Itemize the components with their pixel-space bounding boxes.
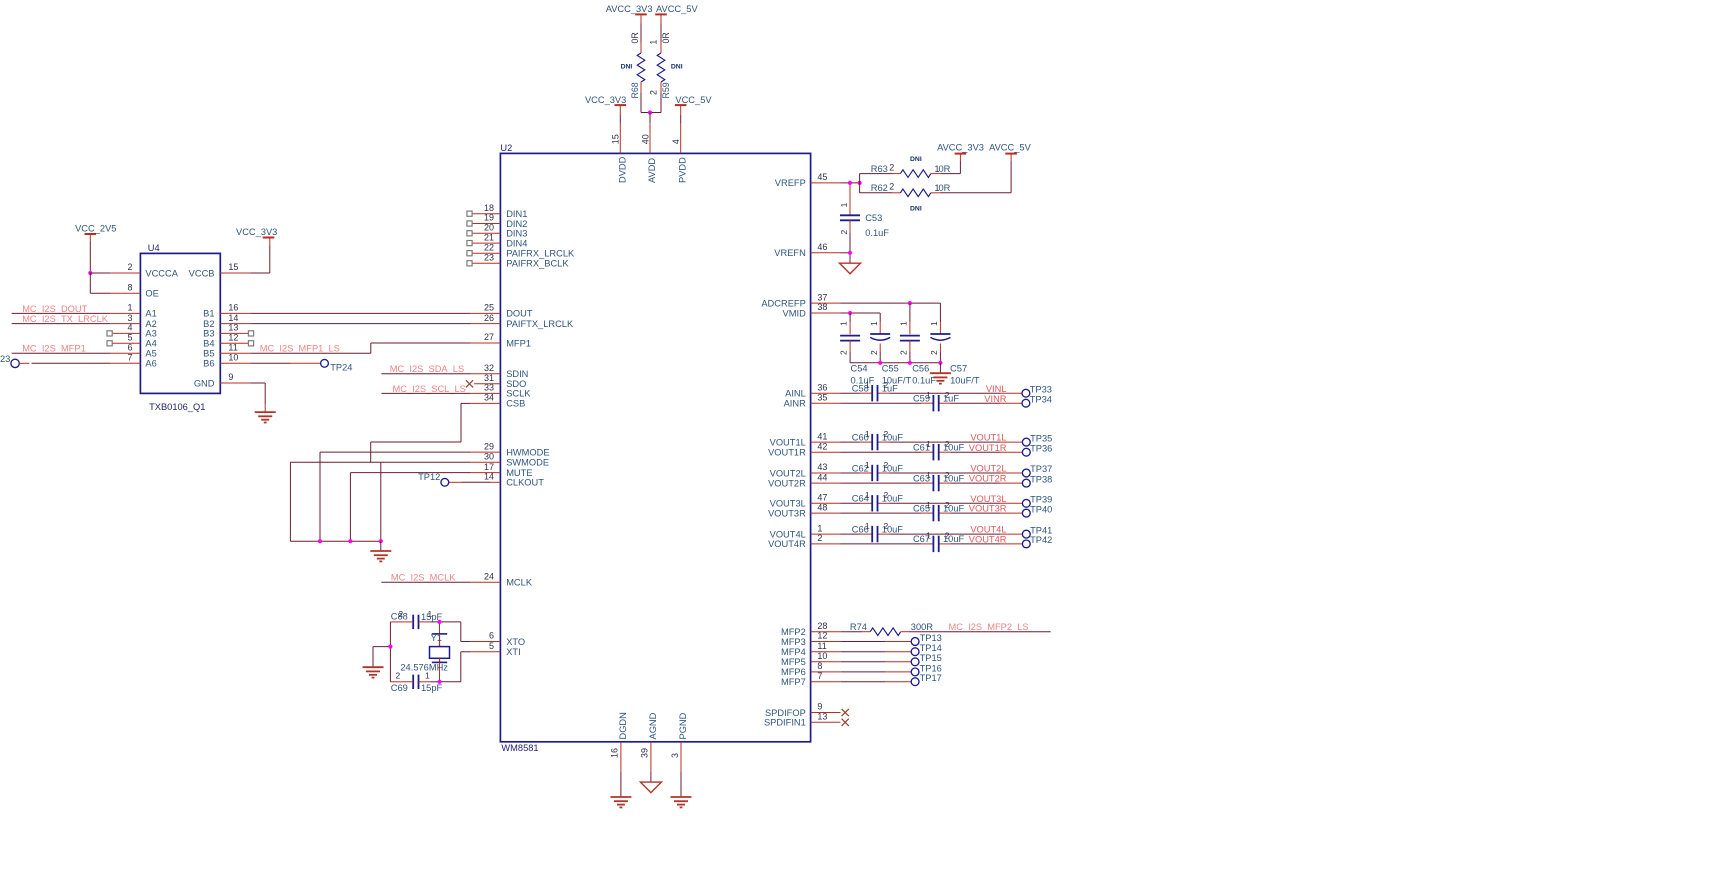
svg-text:PGND: PGND — [678, 712, 688, 739]
svg-text:TP34: TP34 — [1030, 394, 1052, 404]
svg-text:1: 1 — [926, 439, 931, 449]
svg-text:DVDD: DVDD — [617, 156, 627, 183]
svg-text:DNI: DNI — [671, 64, 683, 71]
svg-text:VOUT4R: VOUT4R — [768, 539, 806, 549]
svg-text:10: 10 — [817, 651, 827, 661]
svg-text:C55: C55 — [882, 364, 899, 374]
svg-text:0R: 0R — [661, 32, 671, 43]
svg-text:1: 1 — [899, 321, 909, 326]
svg-text:TP12: TP12 — [418, 472, 440, 482]
svg-text:2: 2 — [899, 350, 909, 355]
svg-text:VOUT3L: VOUT3L — [770, 499, 806, 509]
svg-text:1: 1 — [926, 390, 931, 400]
svg-text:2: 2 — [839, 230, 849, 235]
svg-text:PVDD: PVDD — [678, 157, 688, 183]
svg-text:10: 10 — [228, 353, 238, 363]
svg-text:1: 1 — [865, 429, 870, 439]
svg-text:2: 2 — [929, 350, 939, 355]
svg-text:45: 45 — [817, 172, 827, 182]
svg-text:TP42: TP42 — [1030, 535, 1052, 545]
svg-text:1: 1 — [649, 40, 659, 45]
svg-text:1: 1 — [865, 460, 870, 470]
svg-text:5: 5 — [127, 333, 132, 343]
svg-text:AGND: AGND — [648, 712, 658, 739]
svg-text:C69: C69 — [391, 683, 408, 693]
svg-text:37: 37 — [817, 292, 827, 302]
svg-text:18: 18 — [484, 203, 494, 213]
svg-text:DIN3: DIN3 — [506, 229, 527, 239]
svg-text:15pF: 15pF — [421, 683, 443, 693]
svg-text:C53: C53 — [865, 213, 882, 223]
svg-text:2: 2 — [649, 90, 659, 95]
svg-text:MC_I2S_SCL_LS: MC_I2S_SCL_LS — [393, 384, 466, 394]
svg-text:VOUT4R: VOUT4R — [969, 535, 1007, 545]
svg-text:30: 30 — [484, 451, 494, 461]
svg-text:0.1uF: 0.1uF — [912, 376, 936, 386]
svg-text:C54: C54 — [851, 364, 868, 374]
svg-text:8: 8 — [817, 661, 822, 671]
svg-text:VCC_3V3: VCC_3V3 — [236, 227, 277, 237]
svg-text:9: 9 — [228, 372, 233, 382]
svg-text:2: 2 — [869, 350, 879, 355]
svg-text:SCLK: SCLK — [506, 389, 531, 399]
svg-text:ADCREFP: ADCREFP — [761, 298, 805, 308]
svg-text:DIN1: DIN1 — [506, 209, 527, 219]
svg-text:15: 15 — [611, 134, 621, 144]
svg-text:PAIFTX_LRCLK: PAIFTX_LRCLK — [506, 319, 574, 329]
svg-text:B6: B6 — [203, 359, 214, 369]
svg-text:15: 15 — [228, 262, 238, 272]
svg-text:OE: OE — [145, 289, 158, 299]
svg-text:11: 11 — [817, 641, 826, 651]
svg-text:5: 5 — [489, 641, 494, 651]
svg-text:2: 2 — [884, 490, 889, 500]
svg-text:MCLK: MCLK — [506, 578, 533, 588]
svg-text:TP14: TP14 — [920, 643, 942, 653]
svg-text:TP39: TP39 — [1030, 495, 1052, 505]
svg-text:AINR: AINR — [784, 399, 806, 409]
svg-text:VCC_2V5: VCC_2V5 — [75, 224, 116, 234]
svg-text:VOUT1L: VOUT1L — [770, 437, 806, 447]
svg-text:CLKOUT: CLKOUT — [506, 478, 544, 488]
svg-text:MFP2: MFP2 — [781, 627, 806, 637]
svg-text:1: 1 — [817, 523, 822, 533]
svg-text:AVCC_3V3: AVCC_3V3 — [606, 4, 653, 14]
svg-text:XTI: XTI — [506, 647, 520, 657]
svg-text:B4: B4 — [203, 339, 214, 349]
svg-text:MFP6: MFP6 — [781, 667, 806, 677]
svg-text:2: 2 — [889, 163, 894, 173]
svg-text:VOUT2R: VOUT2R — [969, 474, 1007, 484]
svg-text:MFP3: MFP3 — [781, 637, 806, 647]
svg-text:SDIN: SDIN — [506, 369, 528, 379]
svg-text:A6: A6 — [145, 359, 156, 369]
svg-text:VOUT2L: VOUT2L — [970, 464, 1006, 474]
svg-text:TP24: TP24 — [330, 363, 352, 373]
svg-text:1: 1 — [926, 531, 931, 541]
svg-text:7: 7 — [127, 353, 132, 363]
svg-text:1: 1 — [428, 609, 433, 619]
svg-text:B3: B3 — [203, 329, 214, 339]
svg-text:VOUT1R: VOUT1R — [768, 448, 806, 458]
svg-text:0R: 0R — [939, 164, 951, 174]
svg-text:A2: A2 — [145, 319, 156, 329]
svg-text:U2: U2 — [500, 143, 512, 153]
svg-text:VOUT4L: VOUT4L — [970, 525, 1006, 535]
svg-text:R63: R63 — [871, 164, 888, 174]
svg-text:TP33: TP33 — [1030, 384, 1052, 394]
svg-text:6: 6 — [489, 631, 494, 641]
svg-text:MC_I2S_SDA_LS: MC_I2S_SDA_LS — [390, 364, 464, 374]
svg-text:WM8581: WM8581 — [501, 743, 538, 753]
svg-text:PAIFRX_BCLK: PAIFRX_BCLK — [506, 259, 569, 269]
svg-text:U4: U4 — [148, 243, 160, 253]
svg-text:SPDIFOP: SPDIFOP — [765, 708, 806, 718]
svg-text:1: 1 — [839, 202, 849, 207]
svg-text:VOUT1R: VOUT1R — [969, 443, 1007, 453]
svg-text:VMID: VMID — [783, 308, 807, 318]
svg-text:R59: R59 — [661, 82, 671, 98]
svg-text:MC_I2S_MFP1_LS: MC_I2S_MFP1_LS — [260, 344, 340, 354]
svg-text:2: 2 — [398, 609, 403, 619]
svg-text:B2: B2 — [203, 319, 214, 329]
svg-text:VCCB: VCCB — [189, 268, 215, 278]
svg-text:1: 1 — [929, 321, 939, 326]
svg-text:300R: 300R — [911, 622, 934, 632]
svg-text:DGDN: DGDN — [618, 712, 628, 739]
svg-text:VCCCA: VCCCA — [145, 268, 178, 278]
svg-text:TP13: TP13 — [920, 633, 942, 643]
svg-text:25: 25 — [484, 303, 494, 313]
svg-text:A5: A5 — [145, 349, 156, 359]
svg-text:1: 1 — [127, 303, 132, 313]
svg-text:DNI: DNI — [621, 64, 633, 71]
svg-text:VOUT3L: VOUT3L — [970, 494, 1006, 504]
svg-text:2: 2 — [884, 521, 889, 531]
svg-text:2: 2 — [945, 470, 950, 480]
svg-text:A1: A1 — [145, 309, 156, 319]
svg-text:44: 44 — [817, 472, 827, 482]
svg-text:TP15: TP15 — [920, 653, 942, 663]
svg-text:MC_I2S_TX_LRCLK: MC_I2S_TX_LRCLK — [22, 314, 109, 324]
svg-text:DNI: DNI — [910, 156, 922, 163]
svg-text:29: 29 — [484, 441, 494, 451]
svg-text:46: 46 — [817, 242, 827, 252]
svg-text:C56: C56 — [912, 364, 929, 374]
svg-text:2: 2 — [945, 390, 950, 400]
svg-text:VINR: VINR — [984, 394, 1006, 404]
svg-text:VOUT4L: VOUT4L — [770, 529, 806, 539]
svg-text:SPDIFIN1: SPDIFIN1 — [764, 718, 806, 728]
svg-text:DOUT: DOUT — [506, 309, 533, 319]
svg-text:MC_I2S_MFP1: MC_I2S_MFP1 — [22, 344, 86, 354]
svg-text:1: 1 — [865, 380, 870, 390]
svg-text:17: 17 — [484, 462, 494, 472]
svg-text:2: 2 — [945, 500, 950, 510]
svg-text:VOUT2L: VOUT2L — [770, 468, 806, 478]
svg-text:TP36: TP36 — [1030, 443, 1052, 453]
svg-text:B1: B1 — [203, 309, 214, 319]
svg-text:VINL: VINL — [986, 384, 1007, 394]
svg-text:43: 43 — [817, 462, 827, 472]
svg-text:TP37: TP37 — [1030, 464, 1052, 474]
svg-text:23: 23 — [484, 253, 494, 263]
svg-text:3: 3 — [670, 753, 680, 758]
svg-text:2: 2 — [889, 182, 894, 192]
svg-text:SWMODE: SWMODE — [506, 458, 549, 468]
svg-text:41: 41 — [817, 431, 827, 441]
svg-text:36: 36 — [817, 382, 827, 392]
svg-text:2: 2 — [884, 460, 889, 470]
svg-text:2: 2 — [839, 350, 849, 355]
svg-text:2: 2 — [945, 439, 950, 449]
svg-text:A4: A4 — [145, 339, 156, 349]
svg-text:38: 38 — [817, 302, 827, 312]
svg-text:22: 22 — [484, 242, 494, 252]
svg-text:1: 1 — [865, 521, 870, 531]
svg-text:6: 6 — [127, 343, 132, 353]
svg-text:8: 8 — [127, 283, 132, 293]
svg-text:VOUT3R: VOUT3R — [969, 504, 1007, 514]
svg-text:AINL: AINL — [785, 389, 806, 399]
svg-text:1: 1 — [869, 321, 879, 326]
svg-text:Y1: Y1 — [431, 633, 442, 643]
svg-text:10uF/T: 10uF/T — [950, 376, 980, 386]
svg-text:1: 1 — [425, 670, 430, 680]
svg-text:0R: 0R — [939, 183, 951, 193]
svg-text:0R: 0R — [630, 32, 640, 43]
svg-text:1: 1 — [926, 500, 931, 510]
svg-text:32: 32 — [484, 363, 494, 373]
svg-text:MFP4: MFP4 — [781, 647, 806, 657]
svg-text:MC_I2S_DOUT: MC_I2S_DOUT — [22, 304, 87, 314]
svg-text:PAIFRX_LRCLK: PAIFRX_LRCLK — [506, 249, 575, 259]
svg-text:MFP1: MFP1 — [506, 338, 531, 348]
svg-text:MFP7: MFP7 — [781, 677, 806, 687]
svg-text:VREFP: VREFP — [775, 178, 806, 188]
svg-text:TXB0106_Q1: TXB0106_Q1 — [149, 402, 205, 412]
svg-text:0.1uF: 0.1uF — [865, 228, 889, 238]
svg-text:DNI: DNI — [910, 205, 922, 212]
svg-text:R68: R68 — [630, 82, 640, 98]
svg-text:31: 31 — [484, 373, 494, 383]
svg-text:AVDD: AVDD — [647, 158, 657, 183]
svg-text:VCC_3V3: VCC_3V3 — [585, 95, 626, 105]
svg-text:19: 19 — [484, 213, 494, 223]
svg-text:1: 1 — [926, 470, 931, 480]
svg-text:34: 34 — [484, 393, 494, 403]
svg-text:2: 2 — [127, 262, 132, 272]
svg-text:XTO: XTO — [506, 637, 525, 647]
svg-text:24: 24 — [484, 572, 494, 582]
svg-text:2: 2 — [396, 670, 401, 680]
svg-text:1: 1 — [839, 321, 849, 326]
svg-text:2: 2 — [945, 531, 950, 541]
svg-text:11: 11 — [228, 343, 237, 353]
svg-text:AVCC_5V: AVCC_5V — [656, 4, 698, 14]
svg-text:TP41: TP41 — [1030, 525, 1052, 535]
svg-text:16: 16 — [228, 303, 238, 313]
svg-text:26: 26 — [484, 313, 494, 323]
svg-text:A3: A3 — [145, 329, 156, 339]
svg-text:14: 14 — [228, 313, 238, 323]
svg-text:27: 27 — [484, 332, 494, 342]
svg-text:TP16: TP16 — [920, 663, 942, 673]
svg-text:39: 39 — [640, 748, 650, 758]
svg-text:DIN2: DIN2 — [506, 219, 527, 229]
svg-text:R74: R74 — [850, 622, 867, 632]
svg-text:HWMODE: HWMODE — [506, 447, 549, 457]
svg-text:20: 20 — [484, 223, 494, 233]
svg-text:MUTE: MUTE — [506, 468, 532, 478]
svg-text:R62: R62 — [871, 183, 888, 193]
svg-text:1: 1 — [865, 490, 870, 500]
svg-text:16: 16 — [610, 748, 620, 758]
svg-text:2: 2 — [884, 429, 889, 439]
svg-text:TP23: TP23 — [0, 354, 10, 364]
svg-text:TP35: TP35 — [1030, 433, 1052, 443]
svg-text:C57: C57 — [950, 364, 967, 374]
svg-text:TP17: TP17 — [920, 673, 942, 683]
svg-text:28: 28 — [817, 621, 827, 631]
svg-text:GND: GND — [194, 378, 215, 388]
svg-text:35: 35 — [817, 392, 827, 402]
svg-text:VOUT2R: VOUT2R — [768, 478, 806, 488]
svg-text:MC_I2S_MCLK: MC_I2S_MCLK — [391, 573, 456, 583]
svg-text:12: 12 — [228, 333, 238, 343]
svg-text:47: 47 — [817, 493, 827, 503]
svg-text:AVCC_3V3: AVCC_3V3 — [937, 142, 984, 152]
svg-text:VCC_5V: VCC_5V — [675, 95, 712, 105]
svg-text:TP40: TP40 — [1030, 504, 1052, 514]
svg-text:40: 40 — [640, 134, 650, 144]
svg-text:VREFN: VREFN — [774, 248, 806, 258]
svg-text:AVCC_5V: AVCC_5V — [989, 142, 1031, 152]
svg-text:B5: B5 — [203, 349, 214, 359]
svg-text:2: 2 — [884, 380, 889, 390]
svg-text:4: 4 — [671, 139, 681, 144]
svg-text:VOUT1L: VOUT1L — [970, 433, 1006, 443]
svg-text:9: 9 — [817, 702, 822, 712]
svg-text:VOUT3R: VOUT3R — [768, 508, 806, 518]
svg-text:SDO: SDO — [506, 379, 526, 389]
svg-text:TP38: TP38 — [1030, 474, 1052, 484]
svg-text:3: 3 — [127, 313, 132, 323]
svg-text:MC_I2S_MFP2_LS: MC_I2S_MFP2_LS — [949, 622, 1029, 632]
svg-text:21: 21 — [484, 232, 494, 242]
svg-text:42: 42 — [817, 441, 827, 451]
svg-text:DIN4: DIN4 — [506, 238, 527, 248]
svg-text:CSB: CSB — [506, 399, 525, 409]
svg-text:MFP5: MFP5 — [781, 657, 806, 667]
